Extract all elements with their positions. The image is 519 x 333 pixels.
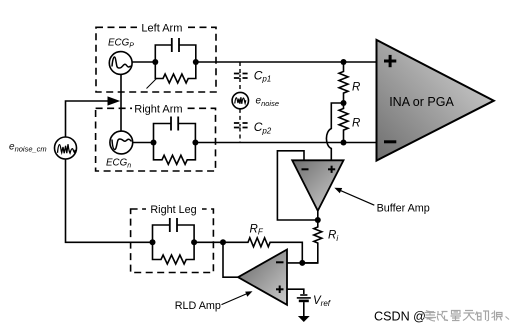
svg-text:Vref: Vref (313, 295, 331, 308)
Right Leg enclosure box (131, 203, 214, 273)
node buffer output (315, 217, 321, 223)
svg-text:CSDN @: CSDN @ (374, 309, 426, 323)
wire R divider tap to buffer + with hop (326, 103, 343, 160)
op-amp Buffer Amp (292, 160, 343, 211)
wire RLD + input to battery (287, 289, 304, 294)
Left Arm enclosure box (96, 21, 216, 92)
leader tick on left arm resistor (147, 79, 157, 89)
svg-text:Cp2: Cp2 (254, 120, 272, 135)
node RF / RLD - input (299, 260, 305, 266)
svg-text:enoise_cm: enoise_cm (9, 142, 47, 154)
svg-text:INA or PGA: INA or PGA (389, 95, 454, 109)
source ECG_P (109, 52, 132, 75)
source e_noise (232, 92, 248, 108)
wire top rail to INA + (196, 61, 377, 63)
source ECG_n (110, 131, 133, 154)
wire battery to ground (303, 302, 305, 316)
node R divider bottom (341, 140, 347, 146)
wire ECG_P to ECG_n common (120, 74, 122, 131)
resistor R (lower) (339, 103, 348, 143)
resistor Left Arm (bottom branch) (155, 62, 196, 83)
wire right leg to RF node (194, 241, 223, 243)
capacitor Right Leg (top branch) (153, 218, 195, 242)
arrowhead into common-mode node (108, 96, 121, 105)
source e_noise_cm (55, 137, 77, 159)
Right Arm enclosure box (96, 102, 216, 171)
capacitor Cp1 (dashed parasitic) (234, 62, 248, 92)
wire e_noise_cm down to Right Leg (66, 159, 153, 242)
wire e_noise_cm up and to arrow (66, 101, 109, 137)
leader arrow to RLD amp (222, 291, 253, 304)
svg-text:Cp1: Cp1 (254, 68, 272, 83)
node R divider mid (341, 100, 347, 106)
resistor R (upper) (339, 62, 348, 103)
svg-text:ECGn: ECGn (106, 158, 131, 170)
resistor Ri (302, 220, 322, 263)
node left-arm RC right (193, 59, 199, 65)
node RLD output / RF (220, 239, 226, 245)
wire node down to RLD output (223, 242, 238, 277)
resistor Right Leg (bottom branch) (153, 242, 195, 264)
op-amp INA or PGA (377, 40, 494, 161)
svg-text:R: R (352, 117, 360, 129)
svg-text:R: R (352, 82, 360, 94)
wire ECG_P to RC (132, 61, 155, 63)
svg-text:Ri: Ri (328, 230, 338, 243)
resistor RF (223, 238, 302, 263)
capacitor Right Arm (top branch) (154, 117, 196, 143)
node R divider top (341, 59, 347, 65)
node right-arm RC right (192, 140, 198, 146)
wire buffer feedback loop (277, 151, 317, 220)
node right-leg RC right (191, 239, 197, 245)
battery V_ref (297, 295, 311, 301)
svg-text:RF: RF (250, 224, 264, 237)
svg-text:Left Arm: Left Arm (141, 22, 182, 34)
svg-text:ECGP: ECGP (108, 38, 134, 50)
node right-arm RC left (151, 140, 157, 146)
watermark (374, 309, 509, 323)
svg-text:Right Arm: Right Arm (134, 103, 182, 115)
capacitor Left Arm (top branch) (155, 38, 196, 62)
node right-leg RC left (150, 239, 156, 245)
leader arrow to buffer amp (334, 188, 374, 206)
node left-arm RC left (152, 59, 158, 65)
wire bottom rail to INA - (195, 142, 376, 144)
resistor Right Arm (bottom branch) (154, 143, 196, 165)
svg-text:enoise: enoise (256, 96, 280, 108)
wire RLD - input (287, 262, 318, 264)
wire buffer output (317, 211, 319, 220)
capacitor Cp2 (dashed parasitic) (234, 109, 248, 143)
svg-text:RLD Amp: RLD Amp (175, 300, 221, 312)
op-amp RLD Amp (238, 250, 287, 305)
wire ECG_n to RC (133, 142, 154, 144)
svg-text:Buffer Amp: Buffer Amp (377, 203, 430, 215)
ground (298, 316, 310, 322)
svg-text:Right Leg: Right Leg (150, 204, 196, 216)
